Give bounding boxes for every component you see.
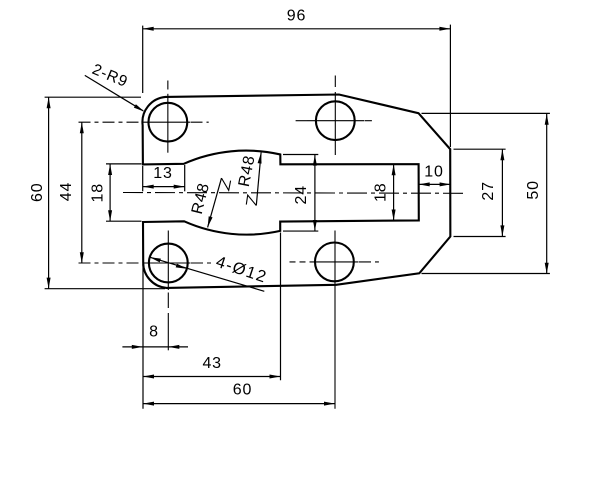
ext line left column lower [142, 264, 144, 409]
ext line 27 bottom [454, 236, 506, 238]
ext line 24 top [283, 154, 318, 156]
svg-text:13: 13 [153, 165, 172, 182]
ext line 50 bottom [422, 273, 550, 275]
svg-text:43: 43 [202, 355, 221, 372]
dim line 8 [122, 346, 188, 348]
leader line R48 upper [256, 153, 261, 206]
ext line 27 top [454, 148, 506, 150]
svg-text:18: 18 [372, 183, 389, 202]
center line BL vertical [167, 231, 169, 291]
center line TL vertical [167, 94, 169, 153]
center line TL vertical dash [167, 81, 169, 90]
hole TR (diameter 12) [316, 101, 355, 140]
center line BL horizontal left [79, 262, 147, 264]
ext line 18L top [106, 163, 142, 165]
dim line 18L [109, 164, 111, 221]
center line TR horizontal left [296, 120, 307, 122]
center line TL horizontal solid [146, 121, 190, 123]
ext line 60 bottom [45, 288, 165, 290]
dim line 60 bottom [143, 403, 335, 405]
dim line 27 [501, 149, 503, 236]
center line BL vertical lower dash2 [167, 313, 169, 350]
center line BR horizontal left [290, 261, 312, 263]
ext line 50 top [422, 112, 550, 114]
ext line 96 left [142, 26, 144, 93]
leader line 4-Ø12 [150, 257, 264, 291]
dim line 24 [314, 155, 316, 231]
center line TR horizontal right [365, 120, 372, 122]
part outline (plate 96x60, chamfered right side, R9 corners, middle slot) [142, 95, 450, 288]
svg-text:27: 27 [480, 181, 497, 200]
center line TL horizontal right [191, 121, 209, 123]
center line slot axis [123, 192, 467, 195]
dim line 96 [143, 28, 451, 30]
hole BL (diameter 12) [149, 244, 188, 283]
svg-text:60: 60 [29, 183, 46, 202]
center line BR horizontal right [359, 261, 379, 263]
hole BR (diameter 12) [315, 243, 354, 282]
center line TR vertical [334, 92, 336, 155]
dim line 50 [546, 114, 548, 274]
svg-text:96: 96 [287, 8, 306, 25]
center line BR vertical + ext of 60 dim [334, 231, 336, 409]
hole TL (diameter 12) [148, 103, 187, 142]
dim line 43 [143, 376, 281, 378]
svg-text:18: 18 [89, 183, 106, 202]
leader line R48 lower [208, 178, 222, 227]
ext line 18L bottom [106, 220, 142, 222]
svg-text:24: 24 [293, 185, 310, 204]
center line BR horizontal solid [311, 261, 359, 263]
center line TR vertical dash [334, 76, 336, 88]
svg-text:50: 50 [525, 180, 542, 199]
svg-text:44: 44 [58, 182, 75, 201]
ext line 24 bottom [283, 230, 318, 232]
svg-text:60: 60 [233, 382, 252, 399]
ext line 96 right [449, 25, 451, 147]
ext line 43 right [280, 233, 282, 381]
center line BL horizontal right [191, 262, 212, 264]
center line BL horizontal solid [147, 262, 191, 264]
ext line 60 top [45, 96, 141, 98]
dim line 44 [81, 122, 83, 263]
svg-text:10: 10 [424, 164, 443, 181]
dim line 60 [48, 97, 50, 288]
dim line 10 [419, 183, 451, 185]
dim line 13 [143, 186, 185, 188]
ext line 13 left [142, 166, 144, 191]
ext line 13 right [184, 165, 186, 191]
svg-text:8: 8 [149, 324, 159, 341]
leader line 2-R9 [85, 75, 144, 111]
dim line 18R [393, 164, 395, 220]
center line TL horizontal left [79, 121, 147, 123]
center line TR horizontal solid [307, 120, 364, 122]
center line BL vertical lower dash1 [167, 293, 169, 309]
